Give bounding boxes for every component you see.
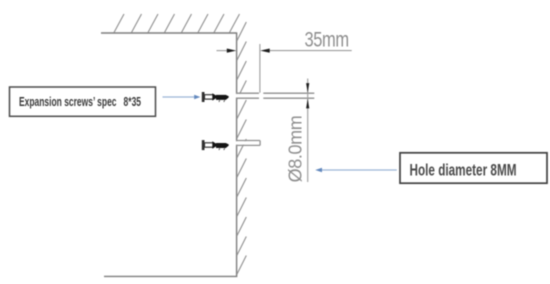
svg-text:Ø8.0mm: Ø8.0mm bbox=[286, 116, 306, 183]
hole H2 outline (drilled hole for lower screw) bbox=[236, 141, 260, 146]
floor line bbox=[104, 275, 237, 277]
screw S2 anchor body bbox=[216, 143, 229, 148]
label box: expansion screws spec bbox=[10, 87, 156, 116]
screw S2 (lower expansion screw) bbox=[202, 140, 229, 150]
leader arrow (blue) from right label box to hole dimension bbox=[322, 169, 397, 171]
svg-text:35mm: 35mm bbox=[305, 27, 349, 50]
dimension line 35mm, left segment with arrow to wall bbox=[217, 50, 229, 52]
screw S2 shaft bbox=[205, 143, 214, 147]
dimension line 35mm, right segment with arrow to extension line bbox=[269, 50, 352, 52]
leader arrow (blue) from left label box to screw S1 bbox=[163, 96, 196, 98]
screw S2 anchor collar bbox=[212, 141, 218, 148]
label box: hole diameter bbox=[400, 153, 547, 183]
wall hatching bbox=[237, 22, 247, 275]
arrowhead down at hole H1 top line bbox=[306, 83, 309, 93]
hole H1 outline (drilled hole for upper screw) bbox=[236, 93, 314, 98]
arrowhead up at hole H1 bottom line bbox=[306, 99, 309, 109]
wall line bbox=[236, 33, 238, 276]
screw S2 head bbox=[202, 140, 205, 150]
svg-text:Expansion screws’ spec 8*35: Expansion screws’ spec 8*35 bbox=[19, 94, 141, 109]
screw S1 anchor collar bbox=[212, 93, 218, 100]
screw S2 anchor slits bbox=[219, 148, 225, 150]
svg-text:Hole diameter 8MM: Hole diameter 8MM bbox=[410, 162, 517, 180]
ceiling hatching bbox=[114, 14, 240, 33]
dimension line for hole diameter (vertical) bbox=[307, 79, 309, 183]
extension line for 35mm dimension bbox=[259, 44, 261, 93]
hole H1 interior (white) bbox=[236, 94, 315, 98]
hole H2 interior (white) bbox=[236, 141, 260, 145]
screw S1 anchor slits bbox=[219, 100, 225, 102]
screw S1 head bbox=[202, 92, 205, 102]
ceiling line bbox=[101, 32, 237, 34]
screw S1 anchor body bbox=[216, 95, 229, 100]
screw S1 (upper expansion screw) bbox=[202, 92, 229, 102]
screw S1 shaft bbox=[205, 95, 214, 99]
